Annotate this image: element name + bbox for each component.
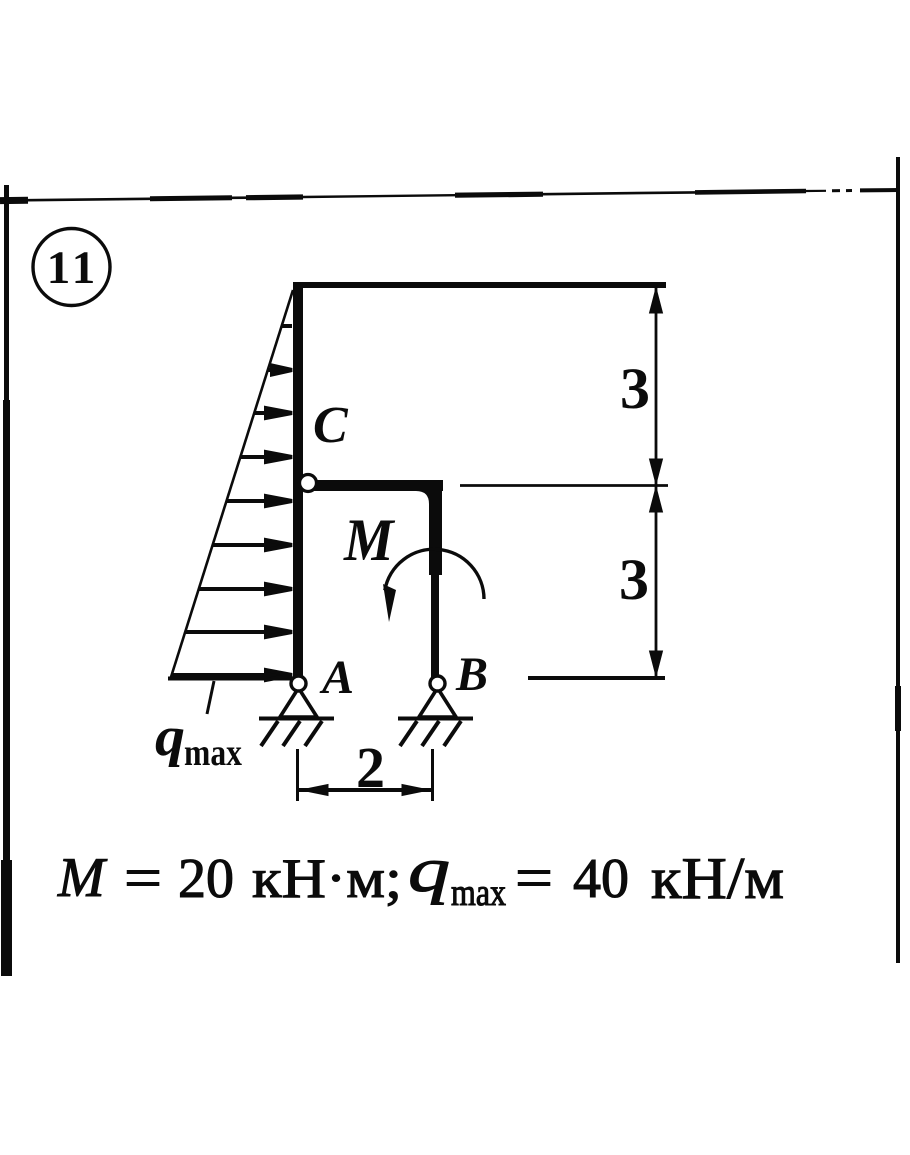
svg-text:B: B bbox=[455, 648, 488, 701]
svg-text:q: q bbox=[155, 706, 185, 768]
svg-text:3: 3 bbox=[619, 547, 649, 612]
svg-text:M: M bbox=[57, 847, 108, 909]
svg-text:11: 11 bbox=[47, 242, 99, 294]
svg-text:max: max bbox=[451, 872, 506, 914]
svg-text:кН·м;: кН·м; bbox=[252, 848, 402, 910]
svg-text:2: 2 bbox=[356, 735, 385, 800]
svg-text:=: = bbox=[515, 845, 553, 911]
svg-text:=: = bbox=[124, 845, 162, 911]
svg-text:40: 40 bbox=[573, 848, 629, 910]
svg-text:3: 3 bbox=[620, 356, 650, 421]
svg-text:кН/м: кН/м bbox=[651, 845, 784, 911]
svg-text:q: q bbox=[408, 834, 450, 905]
svg-text:max: max bbox=[184, 732, 242, 774]
svg-text:C: C bbox=[313, 397, 349, 454]
svg-text:M: M bbox=[343, 506, 396, 573]
svg-text:20: 20 bbox=[178, 848, 234, 910]
svg-text:A: A bbox=[319, 651, 354, 704]
